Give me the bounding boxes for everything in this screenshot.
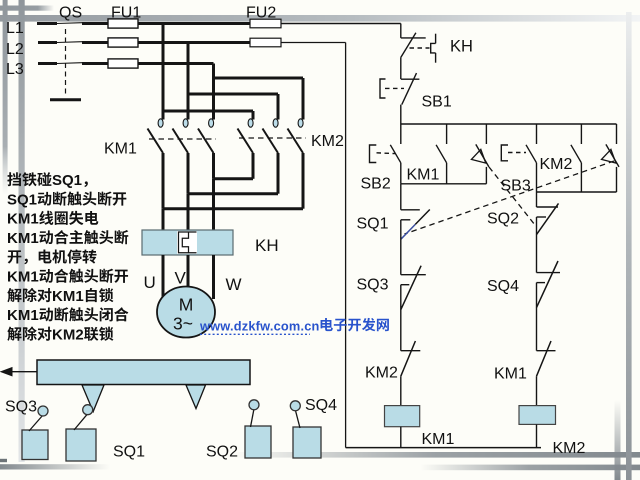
limit switch SQ1 NC contact bbox=[401, 210, 430, 240]
contactor KM2 main contact 4 bbox=[238, 119, 254, 179]
wire crossover V phase bbox=[188, 192, 278, 195]
label KH control bbox=[450, 38, 473, 56]
wire branch 1 from bus bbox=[400, 124, 402, 144]
wire L2 phase line bbox=[38, 40, 346, 44]
wire right column SQ2 to SQ4 bbox=[536, 217, 538, 273]
bottom bus wire bbox=[346, 447, 541, 449]
wire L1 drop to KM1 contact 1 bbox=[162, 24, 165, 120]
frame shadow bar left inner bbox=[3, 0, 8, 195]
svg-text:SQ1: SQ1 bbox=[7, 191, 37, 208]
wire V phase to KH bbox=[187, 194, 190, 230]
contactor KM1 aux NO latch contact bbox=[436, 145, 447, 184]
svg-text:KM1: KM1 bbox=[407, 167, 440, 184]
mechanical link SQ1 NO to SQ1 NC bbox=[405, 161, 615, 234]
frame shadow bar top long bbox=[0, 15, 640, 22]
label SQ4 bbox=[487, 278, 519, 295]
label KM1 interlock bbox=[494, 366, 527, 383]
svg-text:KM2: KM2 bbox=[52, 326, 84, 343]
wire branch 3 from bus bbox=[485, 124, 487, 144]
thermal relay KH heater box bbox=[142, 230, 233, 255]
disconnect switch QS dashed linkage and handle bbox=[50, 29, 81, 100]
limit switch SQ2 NC contact bbox=[537, 203, 559, 234]
svg-text:L1: L1 bbox=[6, 20, 24, 37]
workbench table bbox=[37, 360, 250, 385]
svg-text:SB1: SB1 bbox=[422, 94, 452, 111]
label L2 bbox=[6, 41, 24, 58]
svg-text:KM1: KM1 bbox=[422, 431, 455, 448]
label SB1 bbox=[422, 94, 452, 111]
svg-text:W: W bbox=[226, 275, 242, 294]
thermal relay KH NC contact bbox=[401, 33, 426, 79]
svg-text:KM2: KM2 bbox=[365, 365, 398, 382]
wire U phase to KH bbox=[162, 209, 165, 230]
svg-text:L2: L2 bbox=[6, 41, 24, 58]
dog cam right bbox=[186, 385, 206, 409]
svg-text:KM1: KM1 bbox=[52, 288, 84, 305]
svg-text:KH: KH bbox=[255, 236, 279, 255]
start button SB2 NO contact bbox=[370, 145, 401, 184]
wire L2 drop to KM1 contact 2 bbox=[187, 43, 190, 120]
fuse FU2 pole 2 bbox=[250, 38, 281, 47]
svg-text:SQ4: SQ4 bbox=[305, 397, 337, 414]
contactor KM2 main contact 5 bbox=[263, 119, 279, 194]
contactor KM1 NC interlock contact bbox=[537, 341, 556, 376]
limit switch SQ1 NO contact bbox=[602, 144, 620, 192]
wire control feed from L1 bbox=[400, 24, 402, 38]
wire W to motor bbox=[212, 255, 215, 299]
wire left column above SQ1 bbox=[400, 184, 402, 210]
wire right column to KM2 coil bbox=[536, 376, 538, 405]
motor M 3-phase bbox=[157, 287, 215, 338]
start button SB3 NO contact bbox=[501, 145, 536, 192]
contactor KM1 main contact 3 bbox=[198, 119, 214, 179]
contactor KM2 NC interlock contact bbox=[401, 341, 421, 376]
svg-text:U: U bbox=[144, 273, 156, 292]
annotation text block bbox=[7, 172, 128, 343]
svg-text:FU1: FU1 bbox=[111, 5, 141, 22]
label SQ3 bbox=[357, 277, 389, 294]
wire L2 branch to KM2 contact 5 bbox=[188, 94, 278, 120]
wire L1 phase line bbox=[37, 21, 401, 25]
svg-text:KM1: KM1 bbox=[7, 269, 39, 286]
wire crossover W phase bbox=[214, 177, 254, 180]
KM2 main contacts linkage bbox=[239, 137, 306, 139]
label L1 bbox=[6, 20, 24, 37]
label U bbox=[144, 273, 156, 292]
frame shadow bar top short bbox=[0, 6, 54, 11]
wire right column above SQ2 bbox=[536, 192, 538, 207]
watermark site name bbox=[321, 318, 389, 332]
label KM1 aux bbox=[407, 167, 440, 184]
contactor coil KM1 bbox=[385, 406, 420, 427]
control bus wire bbox=[401, 123, 617, 125]
wire branch 4 from bus bbox=[536, 124, 538, 144]
fuse FU1 pole 1 bbox=[108, 19, 138, 28]
label SB2 bbox=[361, 176, 391, 193]
label KM1 coil bbox=[422, 431, 455, 448]
limit switch SQ1 unit bbox=[66, 405, 96, 461]
svg-text:KM2: KM2 bbox=[540, 156, 573, 173]
travel direction arrow bbox=[1, 368, 37, 376]
KM1 main contacts linkage bbox=[149, 138, 216, 140]
svg-text:L3: L3 bbox=[6, 61, 24, 78]
fuse FU2 pole 1 bbox=[250, 19, 281, 28]
wire L1 branch to KM2 contact 4 bbox=[163, 111, 253, 120]
label KM2 coil bbox=[553, 440, 586, 457]
label L3 bbox=[6, 61, 24, 78]
label SQ2 unit bbox=[206, 444, 238, 461]
svg-text:KM1: KM1 bbox=[7, 230, 39, 247]
wire left column SQ3 to KM2 interlock bbox=[400, 285, 402, 351]
frame shadow bar bottom upper bbox=[230, 452, 640, 458]
label KM2 aux bbox=[540, 156, 573, 173]
wire branch 2 from bus bbox=[446, 124, 448, 144]
svg-text:KM1: KM1 bbox=[104, 141, 137, 158]
limit switch SQ2 NO contact bbox=[471, 144, 489, 183]
label KM2 interlock bbox=[365, 365, 398, 382]
wire L3 drop to KM1 contact 3 bbox=[212, 64, 215, 120]
watermark dzkfw url bbox=[199, 319, 320, 335]
dog cam left bbox=[82, 385, 104, 412]
svg-text:www.dzkfw.com.cn: www.dzkfw.com.cn bbox=[199, 319, 320, 334]
wire V to motor bbox=[187, 255, 190, 287]
svg-text:SQ2: SQ2 bbox=[487, 211, 519, 228]
svg-text:SQ3: SQ3 bbox=[357, 277, 389, 294]
label QS bbox=[59, 5, 82, 22]
label SQ3 unit bbox=[5, 399, 37, 416]
label KM2 main bbox=[311, 133, 344, 150]
svg-text:SB3: SB3 bbox=[501, 178, 531, 195]
label KM1 main bbox=[104, 141, 137, 158]
svg-text:SQ3: SQ3 bbox=[5, 399, 37, 416]
svg-text:SQ2: SQ2 bbox=[206, 444, 238, 461]
frame shadow bar bottom lower right bbox=[420, 465, 640, 471]
svg-text:KM2: KM2 bbox=[553, 440, 586, 457]
svg-text:KM2: KM2 bbox=[311, 133, 344, 150]
wire branch 6 from bus bbox=[616, 124, 618, 144]
svg-text:3~: 3~ bbox=[173, 314, 193, 334]
svg-text:KM1: KM1 bbox=[7, 211, 39, 228]
contactor KM2 main contact 6 bbox=[288, 119, 304, 209]
contactor coil KM2 bbox=[519, 406, 556, 425]
wire U to motor bbox=[162, 255, 165, 298]
svg-text:SQ4: SQ4 bbox=[487, 278, 519, 295]
wire L3 phase line bbox=[38, 61, 214, 65]
mechanical link SB2-SB3 cross bbox=[489, 167, 535, 225]
svg-text:FU2: FU2 bbox=[246, 5, 276, 22]
wire KM2 coil to bottom bus bbox=[536, 424, 538, 447]
label V bbox=[175, 269, 187, 288]
KH heater element symbol bbox=[410, 34, 436, 63]
label SQ2 bbox=[487, 211, 519, 228]
svg-text:QS: QS bbox=[59, 5, 82, 22]
svg-text:SQ1: SQ1 bbox=[52, 172, 82, 189]
svg-text:KH: KH bbox=[450, 38, 473, 56]
label SQ4 unit bbox=[305, 397, 337, 414]
svg-text:SQ1: SQ1 bbox=[113, 444, 145, 461]
svg-text:SB2: SB2 bbox=[361, 176, 391, 193]
label KH power bbox=[255, 236, 279, 255]
label SQ1 unit bbox=[113, 444, 145, 461]
svg-text:KM1: KM1 bbox=[494, 366, 527, 383]
contactor KM1 main contact 2 bbox=[173, 119, 189, 194]
wire left column SQ1 to SQ3 bbox=[400, 220, 402, 275]
wire branch 5 from bus bbox=[580, 124, 582, 144]
limit switch SQ2 unit bbox=[245, 400, 271, 458]
svg-text:M: M bbox=[179, 295, 194, 315]
wire left column to KM1 coil bbox=[400, 376, 402, 405]
frame shadow bar right inner bbox=[615, 400, 621, 480]
stop button SB1 NC bbox=[380, 73, 419, 124]
svg-text:V: V bbox=[175, 269, 187, 288]
label SQ1 bbox=[357, 216, 389, 233]
right group merge wire bbox=[537, 191, 617, 193]
wire W phase to KH bbox=[212, 179, 215, 230]
limit switch SQ3 unit bbox=[22, 406, 48, 460]
limit switch SQ4 unit bbox=[290, 401, 321, 458]
frame shadow bar bottom lower left bbox=[0, 459, 110, 470]
limit switch SQ3 NC contact bbox=[401, 266, 426, 310]
frame shadow bar right outer bbox=[626, 12, 632, 480]
left group merge wire bbox=[401, 183, 487, 185]
wire right column SQ4 to KM1 interlock bbox=[536, 283, 538, 351]
limit switch SQ4 NC contact bbox=[537, 261, 561, 308]
svg-text:SQ1: SQ1 bbox=[357, 216, 389, 233]
label FU1 bbox=[111, 5, 141, 22]
label W bbox=[226, 275, 242, 294]
control return wire via FU2 bbox=[345, 43, 347, 448]
label FU2 bbox=[246, 5, 276, 22]
svg-text:KM1: KM1 bbox=[7, 307, 39, 324]
fuse FU1 pole 3 bbox=[108, 59, 138, 68]
fuse FU1 pole 2 bbox=[108, 38, 138, 47]
frame shadow bar left outer bbox=[19, 0, 25, 462]
wire L3 branch to KM2 contact 6 bbox=[214, 78, 304, 120]
wire crossover U phase bbox=[163, 207, 303, 210]
contactor KM2 aux NO latch contact bbox=[571, 145, 582, 192]
contactor KM1 main contact 1 bbox=[148, 119, 164, 209]
wire KM1 coil to bottom bus bbox=[400, 427, 402, 448]
label SB3 bbox=[501, 178, 531, 195]
